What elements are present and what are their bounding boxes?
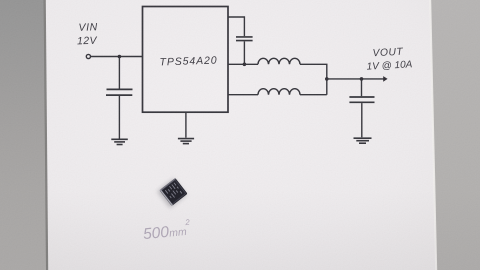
wire down to C3 [361, 79, 363, 96]
chip IC photo [159, 178, 187, 206]
label 500mm2 handwriting [142, 218, 192, 244]
junction input node [118, 55, 122, 59]
ground G1 [111, 139, 128, 144]
wire C1 to ground [118, 96, 120, 139]
IC U1 TPS54A20 box [143, 7, 229, 113]
wire output [327, 78, 384, 80]
wire U1 ground pin [185, 112, 187, 138]
inductor L2 [258, 89, 300, 95]
junction switch node A [243, 63, 247, 67]
junction output tap [325, 77, 329, 81]
ground G3 [354, 138, 372, 143]
wire L1 to output column [300, 64, 327, 94]
background right gray strip [420, 0, 480, 270]
wire U1 pin top to C2 [228, 17, 244, 36]
chip shadow [157, 178, 186, 207]
node VIN terminal [86, 54, 90, 58]
wire U1 pin3 to L2 [228, 94, 258, 96]
bottom vignette [0, 190, 480, 270]
inductor L1 [258, 58, 300, 64]
capacitor C3 [349, 97, 374, 102]
wire L2 to output column [300, 94, 327, 96]
wire C2 to switch node [243, 41, 245, 64]
capacitor C2 flying [236, 37, 253, 41]
ground G2 [178, 139, 194, 144]
arrow VOUT [383, 76, 387, 82]
paper left edge shadow line [44, 0, 49, 270]
capacitor C1 [106, 89, 133, 95]
wire VIN to U1 [91, 56, 143, 58]
wire down to C1 [118, 57, 120, 89]
wire C3 to ground [361, 103, 363, 137]
paper right edge highlight [429, 0, 437, 270]
wire U1 pin2 to L1 [228, 63, 258, 65]
background left gray strip [0, 0, 60, 270]
junction output node [360, 77, 364, 81]
